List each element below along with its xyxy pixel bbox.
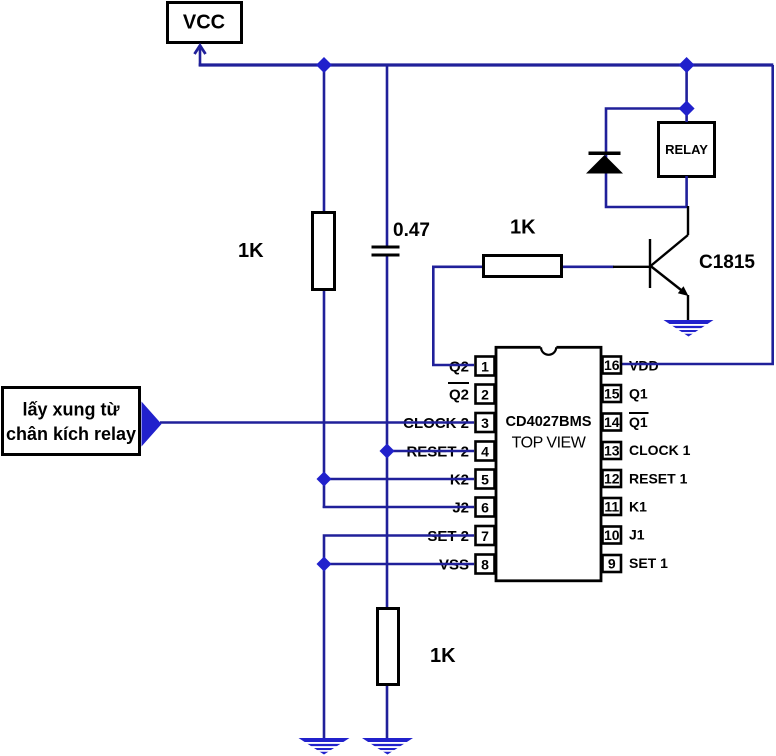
svg-text:10: 10 — [604, 527, 620, 543]
svg-text:9: 9 — [608, 556, 616, 572]
svg-text:3: 3 — [481, 415, 489, 431]
svg-text:2: 2 — [481, 387, 489, 403]
svg-text:12: 12 — [604, 471, 620, 487]
svg-text:8: 8 — [481, 557, 489, 573]
svg-text:CLOCK 1: CLOCK 1 — [629, 442, 691, 458]
svg-text:1K: 1K — [430, 645, 456, 667]
svg-text:Q1: Q1 — [629, 414, 648, 430]
svg-text:CD4027BMS: CD4027BMS — [506, 414, 592, 430]
svg-text:Q1: Q1 — [629, 386, 648, 402]
svg-text:4: 4 — [481, 444, 489, 460]
svg-text:7: 7 — [481, 528, 489, 544]
svg-text:1: 1 — [481, 359, 489, 375]
svg-text:SET 1: SET 1 — [629, 555, 668, 571]
svg-text:VDD: VDD — [629, 358, 659, 374]
svg-text:chân kích relay: chân kích relay — [6, 424, 136, 444]
svg-text:1K: 1K — [238, 240, 264, 262]
svg-text:16: 16 — [604, 357, 620, 373]
svg-text:0.47: 0.47 — [393, 220, 430, 241]
svg-text:6: 6 — [481, 500, 489, 516]
svg-text:15: 15 — [604, 386, 620, 402]
svg-text:13: 13 — [604, 443, 620, 459]
svg-text:Q2: Q2 — [449, 359, 469, 376]
svg-text:TOP VIEW: TOP VIEW — [512, 435, 587, 452]
svg-text:J1: J1 — [629, 527, 645, 543]
svg-text:5: 5 — [481, 472, 489, 488]
svg-text:RESET 1: RESET 1 — [629, 471, 688, 487]
svg-text:lấy xung từ: lấy xung từ — [22, 400, 120, 420]
svg-text:K1: K1 — [629, 499, 647, 515]
svg-text:1K: 1K — [510, 217, 536, 239]
svg-text:VCC: VCC — [183, 12, 225, 34]
svg-text:C1815: C1815 — [699, 252, 755, 273]
svg-text:Q2: Q2 — [449, 387, 469, 404]
svg-text:14: 14 — [604, 414, 620, 430]
svg-text:11: 11 — [604, 499, 619, 515]
svg-text:RELAY: RELAY — [665, 142, 708, 157]
